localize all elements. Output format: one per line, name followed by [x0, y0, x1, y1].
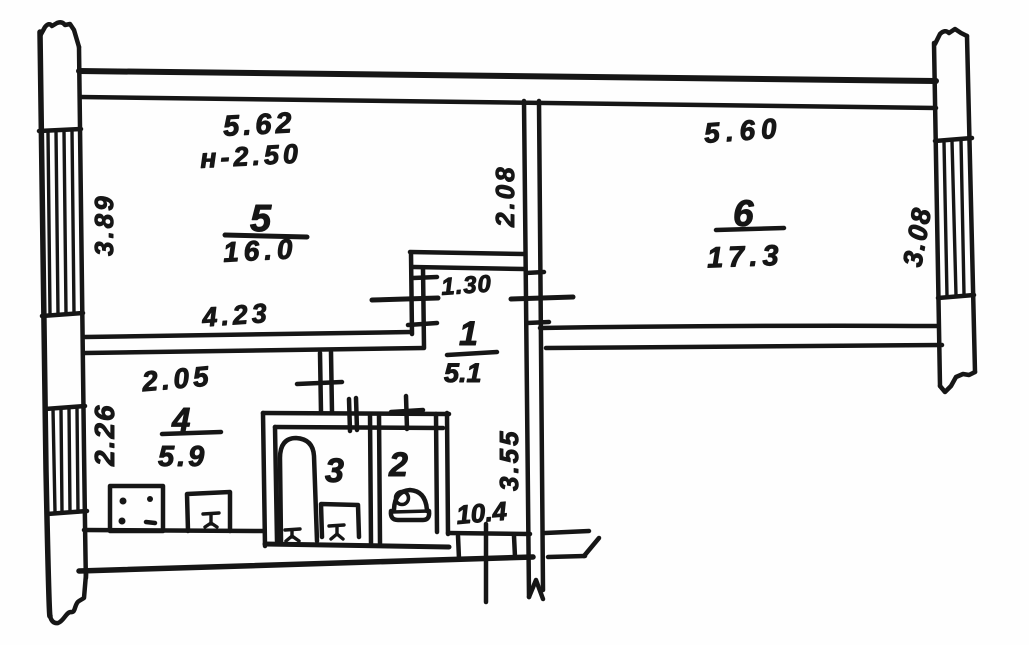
niche top wall lower line	[413, 267, 524, 269]
toilet bowl	[391, 490, 429, 520]
bathtub drain mark	[285, 529, 300, 541]
svg-text:2.05: 2.05	[140, 360, 214, 397]
wall right bottom pillar wavy cut	[940, 372, 975, 392]
toilet right wall right line	[447, 413, 448, 534]
window W1 bottom edge	[42, 313, 83, 316]
door D2 lower jog	[527, 322, 549, 323]
room 6 fraction bar	[716, 228, 784, 230]
room label 6	[733, 193, 754, 234]
wall left top pillar wavy cut	[40, 22, 79, 47]
window W2 top edge	[45, 406, 85, 409]
svg-text:5.9: 5.9	[158, 441, 207, 473]
wall bottom outer line	[79, 557, 533, 571]
bottom wall right stub lower line	[548, 556, 585, 557]
bottom wall right stub diagonal cut	[584, 538, 599, 556]
dimension 5.60	[703, 112, 783, 148]
dimension 3.89	[89, 193, 119, 256]
bottom wall right stub upper line	[545, 531, 589, 533]
wall bottom inner line hallway segment	[448, 533, 530, 534]
kitchen sink drain mark	[203, 513, 219, 527]
kitchen-hall wall stub right line	[331, 352, 332, 412]
svg-text:1: 1	[459, 315, 478, 353]
wall bottom inner line kitchen segment	[84, 530, 264, 531]
svg-text:5.1: 5.1	[444, 358, 482, 388]
room 1 area 5.1	[444, 358, 482, 388]
svg-text:3.08: 3.08	[897, 204, 937, 269]
svg-text:3.89: 3.89	[89, 193, 119, 256]
bath block left wall outer line	[263, 413, 265, 546]
door D2 threshold tick	[511, 297, 573, 299]
svg-text:3.55: 3.55	[494, 428, 524, 491]
dimension 2.26	[89, 404, 120, 468]
niche left wall outer line	[411, 253, 412, 334]
room label 5	[250, 198, 272, 240]
window W2 hatch	[53, 408, 78, 512]
bath block top wall upper line	[263, 413, 449, 414]
room label 4	[171, 401, 190, 438]
room 6 bottom wall lower line	[546, 345, 942, 348]
wall top outer line	[79, 71, 936, 81]
toilet right wall left line	[436, 414, 437, 532]
door D3 kitchen threshold tick	[297, 382, 342, 384]
svg-text:н-2.50: н-2.50	[199, 139, 302, 174]
svg-text:5.62: 5.62	[222, 107, 296, 143]
svg-text:10.4: 10.4	[455, 496, 509, 530]
window W3 hatch	[944, 140, 964, 296]
wall right outer line	[967, 36, 975, 372]
door D2 hallway to room 6 upper jog	[526, 272, 544, 273]
dimension 2.08	[490, 164, 520, 228]
door D1 room 5 to hallway upper jog	[413, 277, 437, 278]
stove burners	[119, 496, 156, 525]
wall between rooms 3 and 2 right line	[379, 414, 380, 543]
toilet flush circle	[396, 492, 409, 505]
window W1 hatch	[48, 130, 74, 314]
wall left bottom pillar wavy cut	[50, 574, 86, 623]
door D5 toilet tick vertical	[406, 396, 407, 429]
dimension 5.62	[222, 107, 296, 143]
stove	[110, 486, 163, 531]
kitchen-hall wall stub left line	[320, 353, 321, 412]
svg-text:3: 3	[325, 452, 344, 490]
bath block top wall lower line	[275, 427, 443, 428]
bath block bottom wall	[265, 544, 449, 547]
niche top wall upper line	[410, 252, 524, 254]
niche left wall inner line	[423, 268, 424, 347]
washbasin room 3	[321, 504, 359, 537]
entry door leaf line	[484, 524, 489, 602]
door D1 threshold tick	[372, 298, 438, 300]
dimension 3.08	[897, 204, 937, 269]
wall right top pillar wavy cut	[935, 29, 967, 44]
window W2 bottom edge	[47, 511, 87, 514]
room label 1	[459, 315, 478, 353]
room 5 area 16.0	[222, 233, 298, 268]
svg-text:1.30: 1.30	[440, 270, 492, 300]
wall left inner line	[79, 47, 86, 578]
dimension 2.05	[140, 360, 214, 397]
dimension 3.55	[494, 428, 524, 491]
entry door jamb tick right	[514, 536, 515, 557]
bathtub	[280, 438, 317, 541]
kitchen sink	[187, 492, 230, 531]
room label 3	[325, 452, 344, 490]
dimension 10.4	[455, 496, 509, 530]
window W3 bottom edge	[938, 295, 974, 298]
svg-text:5.60: 5.60	[703, 112, 783, 148]
dimension 4.23	[200, 298, 271, 333]
svg-text:2: 2	[388, 446, 408, 484]
room 6 area 17.3	[707, 240, 785, 275]
svg-text:4.23: 4.23	[200, 298, 271, 333]
svg-text:2.26: 2.26	[89, 404, 120, 468]
wall top inner line	[80, 97, 936, 108]
door D5 toilet tick horizontal	[391, 410, 423, 412]
divider wall right line	[539, 101, 543, 590]
dimension H-2.50	[199, 139, 302, 174]
svg-text:2.08: 2.08	[490, 164, 520, 228]
room 4 fraction bar	[162, 432, 221, 434]
dimension 1.30	[440, 270, 492, 300]
bath block left wall inner line	[275, 427, 277, 541]
wall left outer line	[40, 32, 50, 616]
room 6 bottom wall upper line	[540, 326, 938, 328]
divider wall rooms 5/6 and hallway right wall left line	[524, 101, 529, 597]
room 5 bottom wall lower line	[85, 348, 424, 353]
wall right inner line	[934, 43, 940, 386]
room 1 fraction bar	[447, 352, 497, 355]
entry door jamb tick left	[458, 536, 459, 559]
hallway right wall stub below with wavy cut	[529, 580, 543, 599]
room 5 fraction bar	[225, 235, 307, 237]
washbasin drain mark	[329, 525, 344, 539]
svg-text:17.3: 17.3	[707, 240, 785, 275]
window W1 top edge	[39, 129, 81, 131]
room 5 bottom wall upper line	[85, 332, 411, 337]
room 4 area 5.9	[158, 441, 207, 473]
wall between rooms 3 and 2 left line	[370, 414, 371, 543]
svg-text:16.0: 16.0	[222, 233, 298, 268]
door D4 bathroom jamb ticks	[349, 398, 357, 431]
window W3 top edge	[935, 138, 972, 141]
door D1 lower jog	[408, 323, 437, 325]
room label 2	[388, 446, 408, 484]
